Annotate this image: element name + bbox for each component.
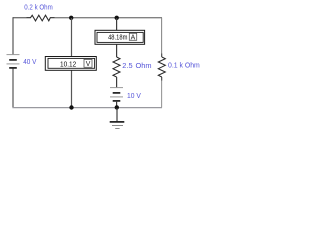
- svg-text:A: A: [131, 35, 136, 42]
- wire right vertical upper: [161, 18, 163, 54]
- wire R2 to battery V2 stub: [116, 77, 118, 88]
- svg-text:10 V: 10 V: [127, 91, 141, 100]
- wire ammeter bottom stub: [116, 45, 118, 58]
- wire left vertical lower: [12, 68, 14, 108]
- svg-text:40 V: 40 V: [23, 57, 36, 66]
- ammeter U2 box: [95, 30, 145, 44]
- svg-text:2.5 Ohm: 2.5 Ohm: [122, 61, 151, 70]
- svg-text:0.1 k Ohm: 0.1 k Ohm: [168, 60, 200, 69]
- battery V1 40V (left): [7, 55, 20, 68]
- resistor R1 0.2 kOhm (horizontal, top): [27, 15, 55, 21]
- wire right vertical lower: [161, 81, 163, 108]
- resistor R3 0.1 kOhm (vertical, right): [158, 57, 165, 77]
- ground symbol: [110, 108, 125, 129]
- node B junction dot (top, ammeter tap): [115, 16, 119, 20]
- wire R3 bottom lead: [161, 77, 163, 81]
- node C junction dot (voltmeter bottom): [69, 105, 73, 109]
- wire bottom horizontal: [12, 107, 162, 109]
- svg-text:48.18m: 48.18m: [108, 33, 127, 42]
- node D junction dot (battery/ground): [115, 105, 119, 109]
- wire voltmeter top stub: [71, 18, 73, 56]
- svg-text:10.12: 10.12: [60, 59, 76, 68]
- svg-text:0.2 k Ohm: 0.2 k Ohm: [24, 3, 52, 12]
- node A junction dot (top, voltmeter tap): [69, 16, 73, 20]
- resistor R2 2.5 Ohm (vertical, middle): [113, 57, 120, 77]
- battery V2 10V (middle): [110, 88, 123, 101]
- svg-text:V: V: [86, 61, 91, 68]
- wire ammeter top stub: [116, 18, 118, 30]
- wire voltmeter bottom stub: [71, 71, 73, 108]
- voltmeter U1 box: [45, 57, 96, 71]
- wire battery V2 to bottom wire: [116, 101, 118, 108]
- wire left vertical upper: [12, 17, 14, 54]
- wire top mid segment: [55, 17, 163, 19]
- wire R3 top lead: [161, 54, 163, 58]
- wire top left segment: [13, 17, 27, 19]
